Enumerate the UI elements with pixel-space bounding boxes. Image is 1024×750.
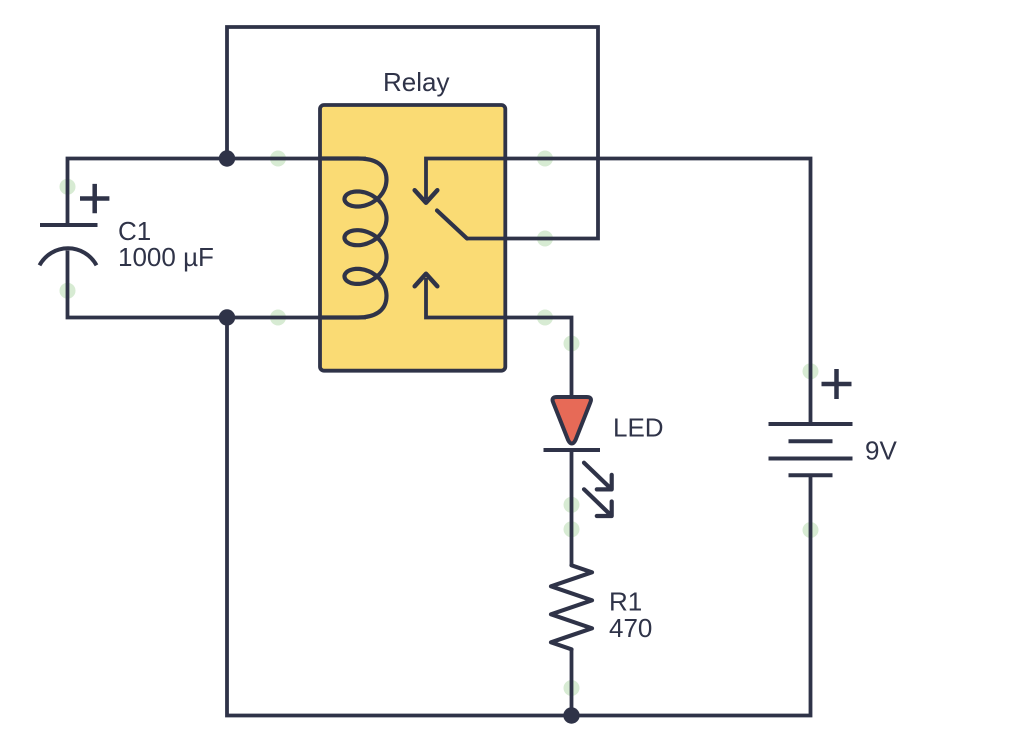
node terminal dot relay lower contact right — [537, 310, 553, 326]
LED D1 triangle — [553, 397, 591, 444]
svg-text:Relay: Relay — [383, 67, 449, 97]
switch upper pole arrowhead — [415, 190, 438, 203]
node terminal dot relay common right — [537, 151, 553, 167]
junction dot top — [219, 150, 235, 166]
LED cathode bar — [544, 448, 601, 452]
node terminal dot C1 bottom — [60, 283, 76, 299]
node terminal dot battery negative — [803, 522, 819, 538]
node terminal dot relay throw right — [537, 231, 553, 247]
switch lower pole arrowhead — [415, 274, 438, 287]
node terminal dot relay coil bottom-left — [270, 310, 286, 326]
svg-text:9V: 9V — [865, 436, 897, 466]
node terminal dot below relay lower contact — [564, 336, 580, 352]
wire ground rail to battery negative — [227, 318, 811, 716]
capacitor C1 top plate — [40, 223, 98, 227]
battery BT1 positive long plate — [769, 422, 853, 426]
wire top loop: junction to switch throw via top rail — [227, 27, 598, 239]
resistor R1 zigzag — [551, 565, 592, 649]
junction dot bottom-left — [219, 309, 235, 325]
battery BT1 short plate 1 — [789, 439, 833, 443]
wire C1 top to relay coil top — [68, 159, 367, 226]
junction dot ground rail — [563, 707, 579, 723]
node terminal dot LED cathode — [564, 497, 580, 513]
svg-text:470: 470 — [609, 613, 652, 643]
wire LED cathode to resistor — [570, 450, 574, 566]
node terminal dot C1 top — [60, 179, 76, 195]
node terminal dot resistor bottom — [564, 680, 580, 696]
svg-text:R1: R1 — [609, 587, 642, 617]
wire relay lower contact to LED anode — [426, 278, 572, 396]
svg-text:LED: LED — [613, 413, 664, 443]
capacitor C1 plus sign — [80, 184, 109, 213]
wire resistor to ground rail — [570, 649, 574, 716]
battery plus sign — [822, 369, 852, 399]
battery BT1 long plate 2 — [769, 457, 853, 461]
capacitor C1 bottom curved plate — [40, 248, 97, 265]
node terminal dot resistor top — [564, 521, 580, 537]
node terminal dot battery positive — [803, 363, 819, 379]
wire C1 bottom to relay coil bottom — [68, 251, 367, 318]
relay coil L1 — [322, 159, 387, 318]
LED emission arrow 2 — [584, 489, 612, 516]
svg-text:1000 µF: 1000 µF — [118, 242, 214, 272]
wire relay common to battery positive — [426, 159, 811, 425]
node terminal dot relay coil top-left — [270, 151, 286, 167]
relay body box — [320, 105, 505, 371]
battery BT1 short plate 2 — [789, 473, 833, 477]
LED emission arrow 1 — [584, 463, 612, 490]
switch blade — [437, 211, 467, 239]
